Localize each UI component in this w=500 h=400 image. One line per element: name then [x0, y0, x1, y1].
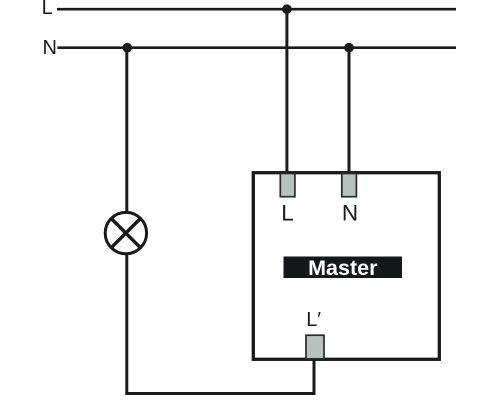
junction dot on N line at lamp branch [123, 43, 133, 53]
wire N line [57, 46, 456, 49]
wire L line [57, 8, 456, 11]
junction dot on N line at device branch [344, 43, 354, 53]
svg-text:L: L [281, 200, 294, 225]
wire from N line down to lamp [125, 48, 128, 213]
wire from L line down to terminal L [285, 9, 288, 174]
lamp E1 cross stroke 2 [112, 219, 140, 247]
wire from lamp down to bottom run [125, 254, 128, 394]
svg-text:N: N [43, 37, 57, 59]
wire from N line down to terminal N [348, 48, 351, 174]
lamp E1 circle [105, 212, 146, 253]
Master name plate [284, 257, 403, 279]
wire bottom horizontal run [125, 392, 315, 395]
svg-text:L′: L′ [306, 309, 321, 331]
svg-text:Master: Master [308, 256, 378, 280]
terminal L of device [280, 174, 295, 197]
svg-text:L: L [42, 0, 53, 19]
wire from terminal L' down to bottom run [313, 358, 316, 395]
terminal N of device [342, 174, 357, 197]
svg-text:N: N [342, 201, 358, 226]
junction dot on L line at device branch [282, 4, 292, 14]
lamp E1 cross stroke 1 [112, 219, 140, 247]
device box U1 (Master) outline [253, 173, 439, 360]
terminal L' of device [306, 335, 324, 359]
